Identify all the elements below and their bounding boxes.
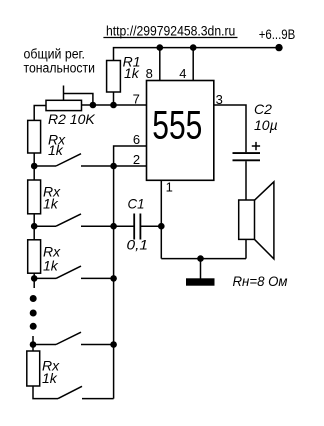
node pin4 rail junction [190,44,197,51]
resistor Rx 3 [28,240,41,273]
wire ellipsis to row4 [32,336,34,351]
switch S1 row1 [34,165,56,167]
svg-text:10µ: 10µ [254,117,278,133]
svg-text:3: 3 [216,92,223,107]
ground bar [186,278,215,285]
wire Rx2 to row2 [33,214,35,240]
svg-text:тональности: тональности [24,60,96,75]
switch S2 row2 [34,225,56,227]
capacitor C2 plates [233,152,261,154]
wire ground stub [200,259,202,279]
svg-text:1: 1 [166,179,173,194]
svg-text:6: 6 [133,132,140,147]
capacitor C1 plates [133,214,135,240]
wire speaker bottom [245,239,247,258]
wire R2 wiper [63,86,65,101]
node wiper junction [90,102,97,109]
resistor R2 potentiometer body [46,100,82,110]
node C1 right junction [158,223,165,230]
ellipsis dot 1 [30,295,37,302]
resistor Rx 4 [27,351,40,386]
wire pin 7 net [82,104,147,106]
svg-text:+6...9В: +6...9В [259,26,296,42]
node row2 bus [110,223,117,230]
node row1 bus [110,163,117,170]
wire Rx1 to row1 [33,153,35,180]
wire Rx3 to row3 [33,273,35,288]
resistor Rx 2 [28,180,41,214]
svg-text:1k: 1k [124,65,140,81]
switch S3 row3 [34,277,56,279]
resistor R1 [107,61,121,93]
switch S5 row5 [58,386,82,398]
svg-text:R2 10K: R2 10K [48,111,95,127]
svg-text:C2: C2 [254,101,272,117]
switch S4 row4 [33,344,56,346]
speaker BA1 body [239,200,255,239]
svg-text:http://299792458.3dn.ru: http://299792458.3dn.ru [106,24,235,39]
ellipsis dot 3 [30,323,37,330]
speaker BA1 cone [255,182,274,259]
node row4 left [30,341,37,348]
wire pin 8 riser [159,48,161,81]
node row3 bus [110,275,117,282]
svg-text:8: 8 [146,66,153,81]
svg-text:1k: 1k [48,142,64,158]
svg-text:1k: 1k [42,370,58,386]
wire pin 4 riser [192,48,194,81]
wire right bus [114,146,147,399]
svg-text:1k: 1k [43,195,59,211]
ellipsis dot 2 [30,310,37,317]
svg-text:Rн=8 Ом: Rн=8 Ом [233,273,288,289]
resistor Rx 1 [28,120,41,153]
node row3 left [31,275,38,282]
node ground junction [197,255,204,262]
wire C2 to speaker [245,161,247,200]
svg-text:4: 4 [179,66,186,81]
wire R2 left to chain [34,106,46,121]
wire Rx4 bottom to row5 [33,386,58,399]
node row4 bus [110,341,117,348]
svg-text:C1: C1 [128,196,145,212]
svg-text:общий рег.: общий рег. [24,47,86,62]
plus sign C2 polarity [252,145,260,147]
svg-text:1k: 1k [43,258,59,274]
node row2 left [31,223,38,230]
wire R1 bottom stub [113,92,115,105]
wire bottom ground net [161,258,246,260]
wire pin 1 [160,180,162,258]
wire C1 right lead [140,225,161,227]
node pin8 rail junction [157,44,164,51]
svg-text:555: 555 [152,103,202,147]
svg-text:2: 2 [133,152,140,167]
svg-text:7: 7 [133,92,140,107]
node supply terminal [275,44,282,51]
node row1 left [31,163,38,170]
svg-text:0,1: 0,1 [127,237,149,253]
wire pin 3 to C2 [214,105,246,152]
node R1 pin7 junction [110,102,117,109]
IC 555 box U1 [147,81,214,181]
wire top supply rail [114,48,280,61]
wire C1 left lead [114,225,135,227]
